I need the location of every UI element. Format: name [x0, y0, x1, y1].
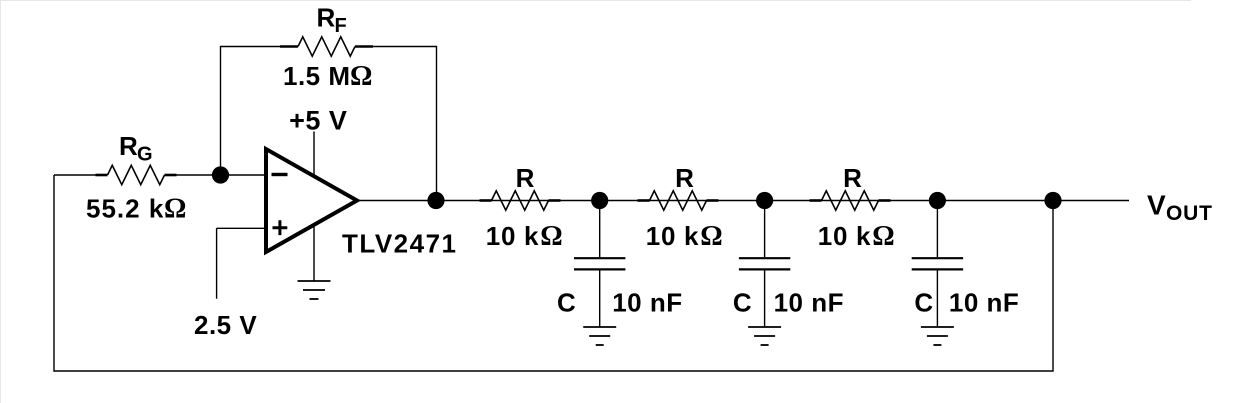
- svg-text:55.2 k: 55.2 k: [86, 193, 164, 223]
- svg-text:Ω: Ω: [700, 221, 722, 252]
- svg-text:Ω: Ω: [540, 221, 562, 252]
- svg-text:R: R: [119, 131, 138, 161]
- svg-text:F: F: [335, 15, 347, 37]
- svg-text:R: R: [675, 163, 694, 193]
- svg-text:2.5 V: 2.5 V: [194, 310, 257, 340]
- svg-text:10 nF: 10 nF: [612, 288, 682, 318]
- svg-text:10 nF: 10 nF: [774, 288, 844, 318]
- svg-text:Ω: Ω: [350, 61, 372, 92]
- svg-text:10 k: 10 k: [486, 221, 539, 251]
- svg-text:R: R: [516, 163, 535, 193]
- svg-text:R: R: [843, 163, 862, 193]
- svg-text:V: V: [1147, 190, 1166, 221]
- svg-text:TLV2471: TLV2471: [342, 228, 458, 258]
- svg-text:10 k: 10 k: [646, 221, 699, 251]
- svg-text:R: R: [317, 2, 336, 32]
- svg-text:1.5 M: 1.5 M: [283, 61, 351, 91]
- svg-text:OUT: OUT: [1166, 202, 1213, 225]
- svg-text:C: C: [557, 288, 576, 318]
- svg-text:G: G: [137, 144, 153, 166]
- svg-text:Ω: Ω: [872, 221, 894, 252]
- svg-text:10 k: 10 k: [818, 221, 871, 251]
- svg-text:10 nF: 10 nF: [949, 288, 1019, 318]
- svg-text:+5 V: +5 V: [289, 106, 347, 136]
- svg-text:Ω: Ω: [164, 193, 186, 224]
- svg-text:C: C: [733, 288, 752, 318]
- svg-text:C: C: [914, 288, 933, 318]
